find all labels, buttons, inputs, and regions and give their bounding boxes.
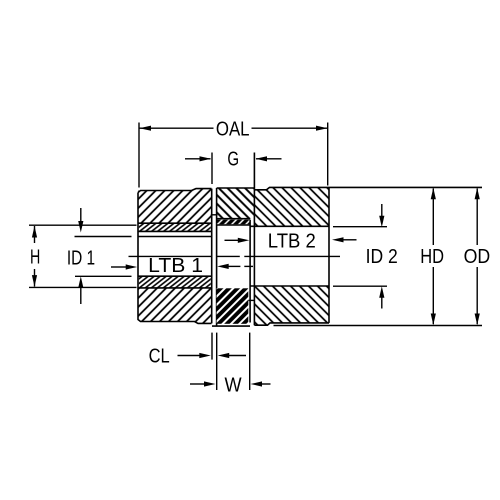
- svg-text:OAL: OAL: [216, 119, 250, 141]
- ID 1 reference line top: [75, 236, 132, 238]
- G left arrowhead: [200, 156, 212, 161]
- W left arrowhead: [204, 381, 216, 386]
- spider cushion upper band (black with stripes): [217, 220, 251, 225]
- G dimension tail right: [256, 158, 282, 160]
- ID 2 bottom arrowhead: [379, 286, 384, 298]
- HD dimension line upper segment: [432, 189, 434, 246]
- svg-text:ID 1: ID 1: [67, 247, 95, 269]
- W right arrowhead: [251, 381, 263, 386]
- left hub lower hatched flange section: [138, 288, 212, 324]
- ID 1 dimension shaft bottom: [80, 288, 82, 304]
- right hub top edge merging into HD/OD top reference line: [254, 187, 482, 189]
- H reference line top: [29, 224, 137, 226]
- svg-text:CL: CL: [149, 346, 170, 368]
- joint dash across right clearance gap: [249, 299, 255, 301]
- OAL extension line left: [138, 123, 140, 188]
- H dimension line upper segment: [34, 226, 36, 243]
- svg-text:LTB 2: LTB 2: [268, 230, 316, 252]
- LTB 1 right arrow tail: [228, 265, 240, 267]
- OD bottom arrowhead: [475, 314, 480, 326]
- OD dimension line upper segment: [476, 189, 478, 246]
- right hub jaw hatched block (between hub faces): [217, 188, 255, 219]
- svg-text:ID 2: ID 2: [366, 246, 398, 268]
- W right arrow tail: [262, 383, 271, 385]
- ID 1 top arrowhead: [78, 221, 83, 233]
- right hub bottom edge with step: [254, 323, 329, 325]
- left hub keyway bottom line: [138, 230, 212, 232]
- right hub lower hatched section: [254, 286, 329, 325]
- LTB 1 left arrowhead: [126, 264, 138, 269]
- svg-text:H: H: [30, 246, 40, 268]
- left hub upper hatched flange section: [138, 189, 212, 224]
- H reference line bottom: [29, 286, 137, 288]
- CL/W extension line (jaw face): [216, 333, 218, 390]
- left hub bore top line (ID 1): [138, 236, 212, 238]
- left hub top outline: [138, 189, 212, 193]
- right hub face line continuing up as G extension line: [253, 153, 255, 326]
- LTB 1 dimension dash: [244, 265, 253, 267]
- LTB 2 left arrowhead: [238, 238, 250, 243]
- ID 2 reference line bottom: [333, 285, 387, 287]
- svg-text:LTB 1: LTB 1: [148, 255, 203, 277]
- ID 2 dimension shaft top: [381, 204, 383, 217]
- CL right arrowhead: [218, 353, 230, 358]
- H top arrowhead: [32, 226, 37, 238]
- svg-text:G: G: [227, 149, 239, 171]
- left hub left edge and bottom outline: [138, 193, 212, 324]
- left hub upper keyway/bushing band: [139, 223, 211, 231]
- OAL dimension line right segment: [252, 127, 328, 129]
- left hub lower keyway/bushing band: [139, 276, 211, 288]
- jaw tip line right of spider: [249, 220, 251, 323]
- ID 1 reference line bottom: [75, 275, 132, 277]
- centerline right segment: [244, 255, 340, 257]
- left hub lower band bottom line (H): [138, 287, 212, 289]
- jaw top edge: [217, 187, 255, 189]
- left hub face edge: [211, 189, 213, 324]
- LTB 1 right arrowhead: [217, 264, 229, 269]
- spider upper band bottom line: [217, 224, 251, 226]
- spider cushion lower block (black with stripes): [217, 288, 249, 324]
- svg-text:W: W: [224, 375, 241, 397]
- OD dimension line lower segment: [476, 267, 478, 324]
- svg-text:HD: HD: [420, 246, 444, 268]
- HD bottom arrowhead: [431, 314, 436, 326]
- H dimension line lower segment: [34, 269, 36, 287]
- OAL dimension line left segment: [140, 127, 214, 129]
- right hub bore bottom line (ID 2): [250, 285, 329, 287]
- CL extension line (hub face, short): [211, 333, 213, 360]
- joint dash across left clearance gap: [211, 214, 218, 216]
- W extension line right: [249, 333, 251, 390]
- OAL right arrowhead: [316, 126, 328, 131]
- OD top arrowhead: [475, 188, 480, 200]
- right hub upper hatched section: [254, 187, 329, 226]
- svg-text:OD: OD: [464, 246, 491, 268]
- W left arrow tail: [190, 383, 204, 385]
- G extension line left: [211, 153, 213, 185]
- ID 2 top arrowhead: [379, 216, 384, 228]
- HD dimension line lower segment: [432, 267, 434, 324]
- CL leader tail from label: [178, 355, 200, 357]
- HD/OD bottom reference line: [274, 325, 483, 327]
- LTB 2 left arrow tail: [225, 239, 239, 241]
- right hub right edge: [328, 187, 330, 323]
- OAL left arrowhead: [140, 126, 152, 131]
- left hub keyway top line: [138, 222, 212, 224]
- CL right arrow tail: [229, 355, 246, 357]
- left hub bore bottom line (ID 1): [138, 275, 212, 277]
- jaw hatch bottom boundary line: [217, 218, 251, 220]
- centerline left segment: [129, 255, 212, 257]
- H bottom arrowhead: [32, 275, 37, 287]
- ID 1 dimension shaft top: [80, 208, 82, 222]
- G right arrowhead: [256, 156, 268, 161]
- HD top arrowhead: [431, 188, 436, 200]
- ID 1 bottom arrowhead: [78, 276, 83, 288]
- right hub bore top line (ID 2): [250, 225, 329, 227]
- G dimension tail left: [185, 158, 211, 160]
- CL leader arrowhead: [199, 353, 211, 358]
- LTB 1 left arrow tail: [111, 266, 126, 268]
- center section bottom edge: [212, 325, 250, 327]
- ID 2 reference line top: [333, 226, 387, 228]
- OAL extension line right: [327, 123, 329, 186]
- jaw face edge (left side of center block): [216, 188, 218, 326]
- LTB 2 right arrow tail: [343, 239, 357, 241]
- LTB 2 right arrowhead: [332, 237, 344, 242]
- centerline middle segment: [217, 255, 240, 257]
- ID 2 dimension shaft bottom: [381, 297, 383, 309]
